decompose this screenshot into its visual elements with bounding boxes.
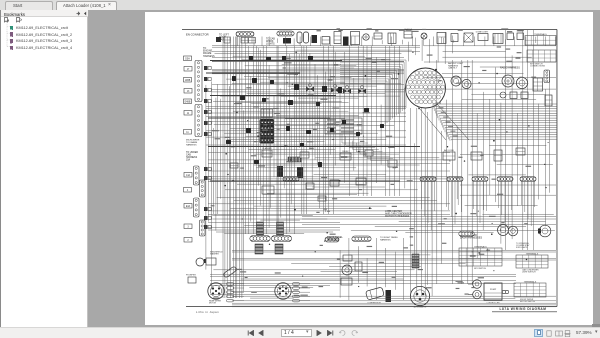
component dome light box	[478, 34, 488, 41]
dark bus streaks horizontal	[210, 60, 342, 62]
splice connector pair 4 near ladder	[204, 99, 207, 103]
svg-text:FOR LIGHTS: FOR LIGHTS	[516, 247, 528, 249]
splice connector pair 7 near ladder	[204, 132, 207, 136]
wiring diagram frame top border	[182, 29, 557, 31]
sidebar header Bookmarks	[1, 10, 88, 17]
splice connector pair 2 near ladder	[204, 77, 207, 81]
status bar prev page button	[258, 330, 264, 336]
compressor cylinder bottom middle	[365, 287, 384, 300]
plug P11 round far right	[539, 225, 551, 237]
component box M6	[306, 183, 314, 189]
connector bar row2 CB-R2	[420, 177, 436, 182]
status bar next view button greyed	[351, 330, 358, 336]
wire bus mesh verticals B	[296, 46, 335, 214]
svg-text:KEY SWITCH: KEY SWITCH	[474, 268, 486, 270]
svg-text:14A: 14A	[186, 174, 191, 177]
sidebar toolbar expand icon 1	[4, 17, 9, 22]
component box M8	[356, 178, 366, 185]
round connector R1 bottom left	[208, 283, 224, 299]
svg-text:CONNECTIONS: CONNECTIONS	[530, 66, 545, 68]
view mode fit page icon	[546, 330, 552, 337]
splice connector pair 9 near ladder	[204, 176, 207, 180]
component resistor X box	[464, 33, 473, 42]
connector bar row2 CB-R5	[497, 177, 513, 182]
plug P7 radio round	[502, 75, 514, 87]
wire bus staircase risers	[433, 104, 451, 141]
dark block right of compressor	[386, 290, 392, 302]
fuse block FB1 dark grid	[260, 119, 275, 144]
component box M4	[365, 150, 373, 156]
terminal box 11 left column 7	[184, 130, 192, 135]
hatched cable vertical near alternator bus	[412, 254, 419, 268]
wire bus verticals above CN1	[408, 32, 452, 64]
connector ladder P3 left lower	[194, 166, 200, 185]
switch SW3 bottom left	[188, 277, 196, 283]
window left edge	[0, 10, 1, 327]
wire bus load center horizontals	[302, 216, 556, 232]
bookmark item 3 icon (purple)	[10, 39, 13, 44]
svg-text:EN CONNECTOR: EN CONNECTOR	[186, 33, 209, 37]
svg-text:14BB: 14BB	[185, 80, 191, 82]
svg-text:HARNESS: HARNESS	[327, 239, 339, 242]
wire labels smudge for staircase	[436, 102, 458, 136]
component small relay right	[545, 95, 552, 106]
tab Attach Loader active	[56, 1, 117, 11]
component horn top row	[363, 34, 369, 40]
key switch grid	[533, 78, 543, 91]
splice connector pair 5 near ladder	[204, 110, 207, 114]
small dark component blobs scattered in mesh	[226, 56, 384, 167]
component box M1 FLASHER	[262, 150, 272, 157]
status bar prev view button greyed	[339, 330, 346, 336]
wire bus mesh verticals A	[246, 46, 295, 234]
controller terminals circles	[502, 290, 505, 293]
terminal box 11 left column 6	[184, 111, 192, 116]
tab close button	[108, 2, 111, 8]
wire bus left vertical main bus	[218, 37, 244, 299]
component box M3 RELAY	[340, 153, 351, 160]
connector bar row2 CB-R6	[520, 177, 536, 182]
svg-text:E4BB: E4BB	[185, 101, 191, 103]
component cigar lighter	[500, 92, 506, 98]
connector ladder P1 left upper	[195, 61, 202, 102]
svg-text:CONTROLLER: CONTROLLER	[487, 303, 501, 305]
connector bar CB3	[352, 236, 371, 242]
terminal box D5H left column 1	[184, 56, 192, 61]
terminal box 13 left column 4	[184, 89, 192, 94]
component box M12	[494, 150, 502, 161]
component box M9	[388, 160, 397, 167]
component box M13	[516, 148, 525, 155]
splice connector pair 10 near ladder	[204, 207, 207, 211]
terminal box 2 left column 12	[184, 238, 192, 243]
splice connector pair 11 near ladder	[204, 216, 207, 220]
connector bar CB5 bottom middle	[325, 237, 339, 242]
zoom caret	[595, 329, 598, 335]
wire bus verticals bottom middle	[340, 238, 403, 300]
relay RB4 bowtie symbol	[358, 89, 366, 94]
component wiper switch	[510, 92, 517, 99]
component relay K3 top right	[437, 33, 446, 44]
dark relay block D2 mid-left	[297, 167, 303, 178]
callout line from CN1 to wire list lower	[438, 105, 470, 141]
component box bottom middle 1	[341, 278, 352, 285]
wire bus staircase mid going down-right	[342, 134, 397, 161]
svg-text:HARNESS: HARNESS	[380, 238, 391, 241]
terminal stack right of R2	[293, 283, 300, 286]
wire bus mid horizontals	[208, 153, 450, 215]
plug P5 round right of CN1	[451, 76, 461, 86]
terminal box 3 left column 11	[184, 224, 192, 229]
arrow boxes next to EN CONNECTOR label	[216, 37, 221, 42]
sidebar panel background	[0, 10, 88, 327]
sidebar toolbar expand icon 2	[16, 17, 22, 22]
underline of title	[492, 311, 557, 313]
plug P9 round mid right	[498, 225, 509, 236]
svg-text:FR WIPER: FR WIPER	[186, 275, 196, 277]
fuse holder diagonal bottom left	[223, 266, 237, 278]
wire bus lower horizontals	[210, 266, 516, 283]
wire labels texture smudges	[211, 28, 536, 298]
scroll corner dark block	[592, 324, 600, 327]
wire bus left lower horizontals	[208, 216, 340, 234]
wire bus long bus lines	[232, 251, 556, 264]
tab Start	[5, 1, 53, 10]
terminal stack right of R1	[227, 283, 234, 286]
motor M1 circle bottom left	[196, 258, 204, 266]
connector bar CB2	[272, 236, 292, 242]
bookmark item 4 icon (purple)	[10, 46, 13, 51]
accessory ladder box right	[544, 70, 550, 83]
component small boxes x2 bottom middle	[355, 262, 362, 271]
callout line from CN1 to wire list upper	[417, 106, 446, 141]
wiring diagram frame right border	[556, 30, 558, 307]
wire bus connector drop lines top left	[238, 37, 294, 47]
component resistor pack top row	[388, 33, 396, 44]
svg-text:MOTOR SWITCH: MOTOR SWITCH	[520, 301, 536, 303]
fuse block header grid	[261, 109, 273, 117]
legend box center	[325, 118, 362, 134]
terminal box 14A left column 8	[184, 173, 192, 178]
wire bus connector drop lines top right	[300, 37, 555, 47]
bookmark item 1 label	[16, 26, 68, 30]
connector ladder P2 left middle	[195, 105, 202, 137]
terminal box 4 left column 9	[184, 188, 192, 193]
svg-text:E4A: E4A	[186, 205, 191, 208]
motor M2 circle bottom middle	[342, 265, 352, 275]
view mode two page icon	[555, 330, 563, 337]
component flasher top right	[451, 34, 458, 42]
component fuse F2 right of center	[404, 31, 412, 38]
component box M11	[471, 152, 482, 160]
connector bar row2 CB-R1	[283, 177, 299, 182]
svg-text:MOTOR: MOTOR	[209, 303, 217, 305]
status bar page number box	[281, 329, 312, 337]
svg-text:15A: 15A	[186, 159, 191, 162]
relay RB3 bowtie symbol	[343, 89, 351, 94]
terminal box E4A left column 10	[184, 204, 192, 209]
bookmark tree lines	[0, 22, 14, 52]
wire bus verticals below CN1	[411, 108, 433, 296]
svg-text:RELAY: RELAY	[342, 150, 349, 153]
svg-text:L87A WIRING DIAGRAM: L87A WIRING DIAGRAM	[500, 307, 547, 311]
connector ladder P5 left bottom	[200, 180, 206, 197]
svg-text:MOTOR HARNESSES: MOTOR HARNESSES	[385, 215, 410, 218]
svg-text:Litho in Japan: Litho in Japan	[196, 310, 219, 314]
svg-text:LIGHTS: LIGHTS	[266, 43, 275, 46]
hatched cable above bar CB2	[277, 222, 284, 235]
view mode scroll icon	[564, 330, 571, 337]
component switch SW1 top far right	[507, 33, 514, 40]
wire bus top strip horizontals	[212, 46, 420, 57]
svg-text:HARNESS: HARNESS	[186, 143, 197, 146]
wire bus right area horizontals	[424, 46, 556, 100]
component relay K2 top row	[351, 32, 360, 45]
bookmark item 4 label	[16, 46, 72, 50]
pump controller box bottom right	[484, 283, 502, 300]
connector block B below J1	[249, 38, 256, 44]
sidebar header pin icon	[76, 11, 81, 15]
relay RB1 bowtie symbol	[306, 87, 314, 92]
wire bus staircase to right edge	[433, 104, 557, 139]
splice connector pair 8 near ladder	[204, 167, 207, 171]
status bar next page button	[316, 330, 322, 336]
component box M15	[230, 163, 238, 168]
plug P8 radio round	[516, 77, 527, 88]
zoom percentage	[576, 330, 592, 335]
wire bus left mesh horizontals upper	[212, 58, 404, 104]
svg-text:LIGHT SWITCH: LIGHT SWITCH	[522, 272, 536, 274]
component breaker top row	[374, 33, 382, 39]
wire bus far right horizontals	[460, 146, 556, 215]
splice connector pair 13 near ladder	[204, 259, 207, 263]
connector J2 to cab work lights	[277, 31, 294, 36]
bulkhead connector CN1 big circle	[406, 68, 446, 108]
wire drops below row2 connector bars	[422, 182, 535, 231]
svg-text:PUMP: PUMP	[490, 289, 497, 291]
round connector R2 bottom middle	[275, 283, 291, 299]
component box M2	[300, 152, 309, 158]
component box M7	[330, 180, 339, 186]
wire bus nested corners to vertical drop	[340, 60, 406, 125]
connector ladder P6 left bottom2	[200, 220, 206, 236]
terminal box 17 left column 2	[184, 67, 192, 72]
wire bus bottom long lines	[232, 296, 556, 307]
component box M5	[262, 186, 274, 194]
plug P12 small bottom right	[473, 280, 482, 289]
alternator circle bottom	[410, 286, 429, 305]
wire bus verticals mid right	[437, 60, 477, 284]
component heater switch	[521, 92, 528, 99]
wire bus left mesh horizontals lower	[206, 107, 406, 150]
plug P6 round right of CN1	[462, 79, 471, 88]
sidebar header collapse icon	[83, 11, 87, 15]
bookmark item 2 icon (purple)	[10, 32, 13, 37]
box next to motor M1	[206, 258, 216, 265]
component regulator cylinders	[297, 32, 302, 43]
svg-text:CAB TILT: CAB TILT	[448, 67, 458, 70]
dark relay block D1 mid-left	[277, 166, 283, 177]
bulkhead connector CN1 pins	[406, 71, 444, 104]
relay RB2 bowtie symbol	[331, 88, 339, 93]
junction dots texture	[224, 51, 548, 287]
splice connector pair 3 near ladder	[204, 88, 207, 92]
splice connector pair 1 near ladder	[204, 66, 207, 70]
component fuse box F1 top row	[334, 32, 341, 44]
page white sheet	[145, 12, 593, 325]
bookmark item 1 icon (teal)	[10, 26, 13, 31]
hatched cable below CB2	[275, 244, 283, 254]
component switch SW2 top far right	[517, 33, 524, 40]
connector block C dark	[283, 38, 291, 44]
component solenoid dark top row	[343, 37, 349, 46]
connector J1 to left panel harness	[236, 32, 254, 37]
bookmark item 3 label	[16, 39, 72, 43]
wire bus mesh verticals C	[340, 46, 405, 196]
hatched cable below CB1	[255, 244, 263, 254]
view mode single page selected	[534, 329, 543, 337]
status bar	[0, 327, 600, 338]
component box M14	[318, 196, 326, 201]
bookmark item 2 label	[16, 33, 72, 37]
plug P10 round mid right	[508, 226, 518, 236]
connector bar row2 CB-R4	[472, 177, 488, 182]
terminal box 14BB left column 3	[184, 78, 192, 83]
svg-text:AIR COND: AIR COND	[444, 149, 454, 152]
status bar first page button	[247, 330, 255, 336]
hatched cable above bar CB1	[257, 222, 264, 235]
component lamp top right	[421, 33, 427, 39]
wire bus bottom-left short horizontals	[210, 286, 330, 298]
wire bus left edge verticals	[206, 81, 216, 289]
plug stems bottom right	[468, 283, 473, 285]
component diode block dark	[312, 35, 318, 43]
svg-text:COMPRESSOR: COMPRESSOR	[367, 303, 381, 305]
svg-text:DASH HARNESSES: DASH HARNESSES	[460, 237, 482, 240]
svg-text:D5H: D5H	[185, 58, 190, 60]
window tab bar	[0, 0, 600, 11]
splice connector pair 6 near ladder	[204, 121, 207, 125]
splice connector pair 12 near ladder	[204, 225, 207, 229]
wire bus verticals right	[484, 30, 557, 250]
connector bar row2 CB-R3	[447, 177, 463, 182]
table TERMINALS T2 top right	[527, 50, 556, 62]
plug P13 small bottom right	[473, 290, 482, 299]
connector bar CB1	[250, 236, 270, 242]
component battery symbol	[493, 34, 503, 44]
connector bar CB4 right	[459, 231, 474, 237]
connector ladder P4 left lower2	[194, 198, 200, 217]
connector block A below J1	[241, 38, 248, 44]
status bar last page button	[326, 330, 334, 336]
component relay K1 top row	[322, 37, 330, 45]
hatched cable horizontal mid-left	[288, 157, 301, 162]
terminal box E4BB left column 5	[184, 99, 192, 104]
component box M10 AIR COND	[443, 152, 455, 160]
wiring diagram frame bottom border	[186, 306, 557, 308]
